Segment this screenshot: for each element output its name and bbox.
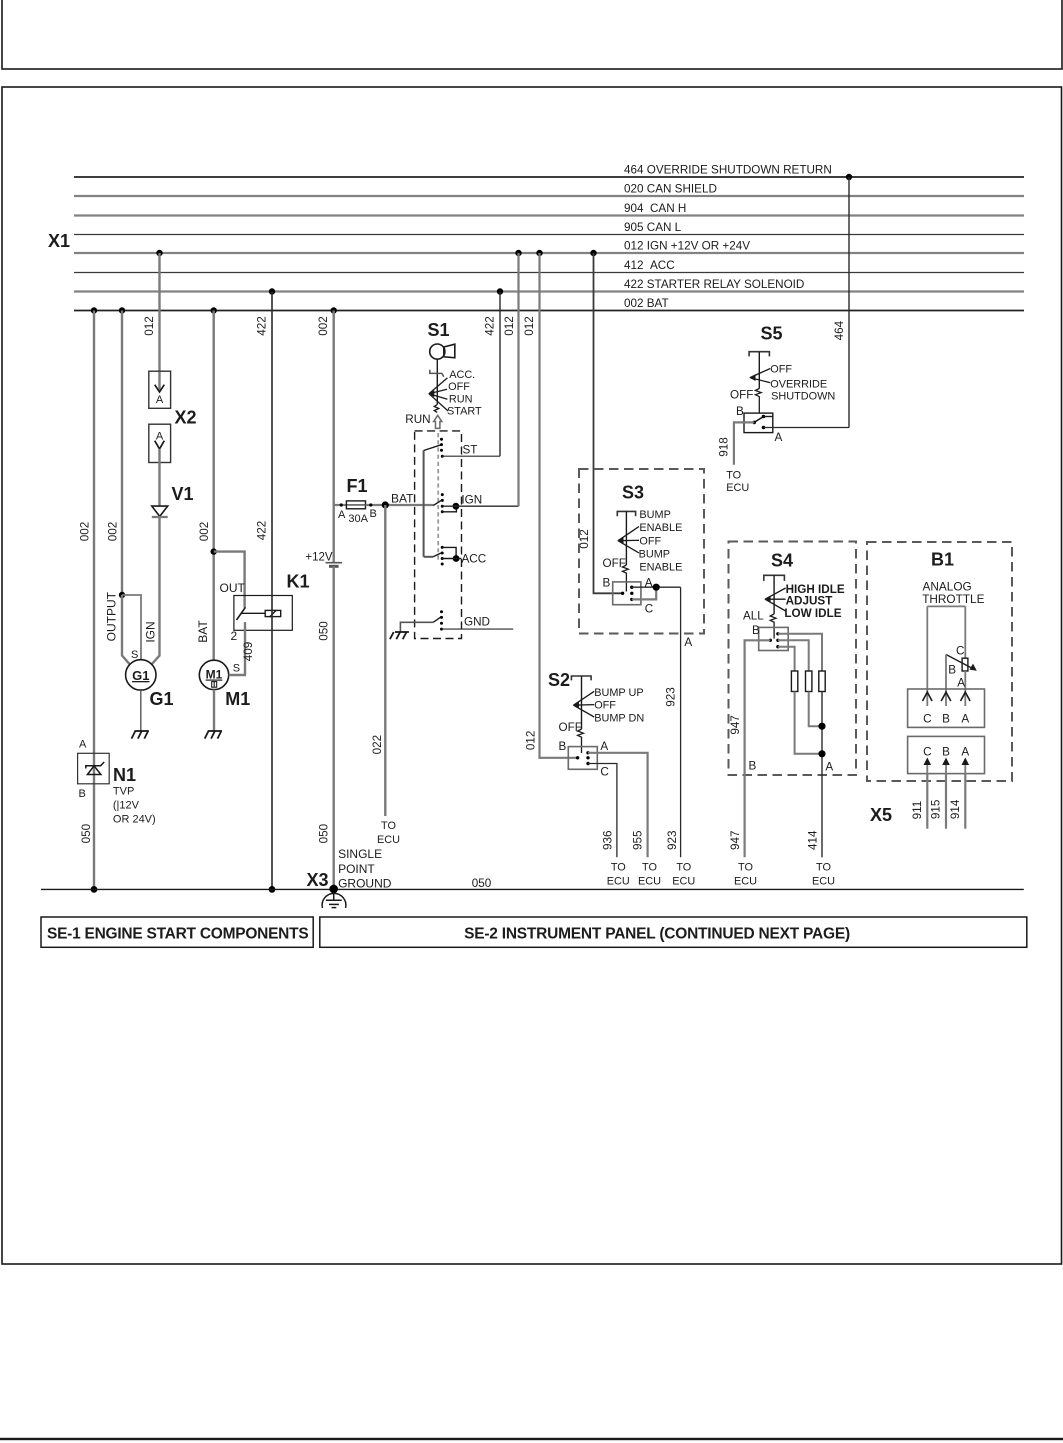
- wire B1 wiper leg: [945, 655, 947, 707]
- wire B1 pot top leg: [964, 606, 966, 658]
- svg-text:S: S: [233, 663, 240, 675]
- S4 fan pivot wedge: [764, 596, 770, 603]
- svg-text:THROTTLE: THROTTLE: [922, 592, 984, 606]
- S1 ACC position mark: [430, 370, 444, 377]
- svg-text:30A: 30A: [348, 513, 368, 525]
- svg-text:S5: S5: [761, 324, 783, 344]
- relay K1 coil box: [265, 610, 281, 616]
- fuse F1 pin A dot: [340, 503, 343, 506]
- X3 single point ground dot: [329, 885, 338, 894]
- wire S5-A to 464 riser: [764, 427, 850, 429]
- svg-text:S2: S2: [548, 670, 570, 690]
- svg-text:012: 012: [525, 731, 538, 751]
- junction dot IGN output: [453, 503, 460, 510]
- svg-text:002: 002: [107, 522, 120, 542]
- resistor R (right): [819, 671, 825, 692]
- svg-text:B: B: [603, 576, 611, 589]
- wire 002 to battery and X3 (x=333.7): [333, 311, 335, 563]
- potentiometer wiper arrow: [946, 655, 975, 670]
- svg-text:ECU: ECU: [377, 834, 400, 846]
- wire bus 002 BAT: [74, 310, 1024, 312]
- wire 012 riser from IGN to bus: [517, 253, 519, 506]
- S1 fan pivot wedge: [428, 390, 434, 397]
- wire S4 bottom contact to resistor 1: [778, 647, 795, 671]
- svg-text:022: 022: [371, 735, 384, 755]
- svg-text:C: C: [923, 745, 931, 758]
- svg-text:B: B: [79, 788, 86, 800]
- svg-text:002: 002: [317, 316, 330, 336]
- resistor R (left): [791, 671, 797, 692]
- bus net name labels: [624, 164, 832, 311]
- S1 mechanical link dashed: [437, 433, 439, 562]
- wire bus 412 ACC: [74, 272, 1024, 274]
- svg-text:A: A: [775, 431, 783, 444]
- connector X2 pin box A (male): [149, 371, 171, 408]
- female pin chevron C: [923, 692, 933, 701]
- svg-text:G1: G1: [150, 689, 174, 709]
- svg-text:ECU: ECU: [812, 876, 835, 888]
- connector X2 socket box (female): [149, 424, 171, 462]
- svg-text:TO: TO: [642, 862, 657, 874]
- svg-text:ECU: ECU: [672, 876, 695, 888]
- wire bus 012 IGN: [74, 252, 1024, 254]
- S2 spring squiggle: [578, 729, 584, 753]
- svg-text:A: A: [961, 712, 969, 725]
- wire 911: [926, 774, 928, 829]
- junction dot 414 lower: [818, 750, 825, 757]
- svg-text:904 CAN H: 904 CAN H: [624, 202, 686, 215]
- S2 stem: [581, 676, 583, 729]
- S1 GND contact arm: [433, 617, 441, 623]
- TVS N1 zener bar: [86, 762, 104, 769]
- svg-text:002 BAT: 002 BAT: [624, 297, 669, 310]
- svg-text:ECU: ECU: [726, 482, 749, 494]
- S4 handle bracket: [764, 575, 785, 581]
- wire 002 BAT drop to M1 (x=213.7): [212, 311, 214, 661]
- wire 012 drop to S3 (x=593.5): [594, 253, 623, 593]
- svg-text:SE-1 ENGINE START COMPONENTS: SE-1 ENGINE START COMPONENTS: [47, 926, 308, 943]
- X2 male pin arrowhead: [155, 385, 165, 392]
- caption box SE-2: [320, 917, 1027, 947]
- svg-text:002: 002: [198, 522, 211, 542]
- junction on 002 bus at x=122: [119, 307, 125, 313]
- S5 stem: [758, 352, 760, 389]
- svg-text:+12V: +12V: [305, 552, 333, 564]
- svg-text:OUT: OUT: [220, 581, 246, 595]
- svg-text:B: B: [752, 624, 760, 637]
- svg-text:LOW IDLE: LOW IDLE: [784, 607, 841, 620]
- svg-text:IGN: IGN: [461, 494, 482, 507]
- male pin arrow A: [964, 759, 966, 774]
- wire IGN output to 012 riser: [442, 505, 518, 507]
- wire 422 riser from ST to bus: [499, 292, 501, 457]
- svg-text:2: 2: [231, 629, 238, 643]
- wire bus 464 OVERRIDE SHUTDOWN RETURN: [74, 176, 1024, 178]
- svg-text:C: C: [956, 644, 964, 657]
- svg-text:G1: G1: [132, 668, 149, 683]
- svg-text:OR 24V): OR 24V): [113, 814, 156, 826]
- S1 ACC link hook: [442, 547, 456, 558]
- wire OUT from 002 to relay K1: [214, 552, 245, 608]
- wire OUTPUT lead into G1: [122, 595, 130, 665]
- svg-text:ACC.: ACC.: [449, 369, 475, 381]
- S1 GND feed wire and chassis ground: [400, 622, 415, 632]
- wire 422 from bus through K1 coil to ground bus (x=272): [271, 292, 273, 890]
- svg-text:S1: S1: [428, 320, 450, 340]
- svg-text:BAT: BAT: [196, 620, 210, 643]
- svg-text:TVP: TVP: [113, 786, 134, 798]
- wire 002 drop to G1 OUTPUT (x=122): [121, 311, 123, 596]
- S3 handle bracket: [617, 511, 635, 516]
- svg-text:B: B: [559, 740, 567, 753]
- svg-text:OFF: OFF: [559, 721, 582, 734]
- svg-text:BUMP UP: BUMP UP: [594, 687, 643, 699]
- S3 connector box: [613, 582, 641, 605]
- svg-text:TO: TO: [738, 862, 753, 874]
- S1 spring squiggle: [434, 405, 439, 413]
- S5 contact arm: [754, 417, 763, 423]
- svg-text:012: 012: [523, 316, 536, 336]
- svg-text:M1: M1: [206, 668, 223, 682]
- junction on 012 bus at x=539.5: [536, 250, 542, 256]
- S1 key stem: [436, 359, 438, 404]
- S3 contact dots: [630, 586, 633, 602]
- junction dot OUT branch: [211, 548, 217, 554]
- svg-text:BUMP: BUMP: [639, 509, 670, 521]
- S2 handle bracket: [571, 676, 591, 680]
- wire M1 to ground: [213, 690, 215, 731]
- wire IGN from V1 to G1: [152, 517, 160, 665]
- svg-text:464: 464: [833, 320, 846, 340]
- wire GND output stub: [442, 628, 514, 630]
- diode V1 triangle: [152, 506, 168, 516]
- svg-text:002: 002: [79, 522, 92, 542]
- svg-text:GND: GND: [464, 615, 490, 628]
- junction on 002 bus at x=94: [91, 307, 97, 313]
- svg-text:915: 915: [930, 799, 943, 819]
- female pin chevron B: [941, 692, 951, 701]
- wire 918 S5-B to ECU: [734, 422, 754, 464]
- svg-text:IGN: IGN: [144, 621, 158, 642]
- S1 IGN contact arm: [433, 500, 441, 505]
- junction on 422 bus at x=500: [497, 288, 503, 294]
- S2 contact dots: [586, 751, 589, 765]
- S1 ST contact dots: [440, 438, 444, 458]
- svg-text:X1: X1: [48, 231, 70, 251]
- wire left resistor to junction: [795, 692, 822, 754]
- junction dot S3 A/C: [653, 584, 660, 591]
- svg-text:422: 422: [484, 316, 497, 336]
- junction dot at (122,595): [119, 592, 125, 598]
- svg-text:OFF: OFF: [603, 557, 626, 570]
- svg-text:A: A: [600, 740, 608, 753]
- fuse F1 left lead: [334, 504, 347, 506]
- wire 002/050 left drop through N1 (x=94): [93, 311, 95, 890]
- S3 wiper dot: [621, 592, 624, 595]
- wire 409 relay pin2 to M1 S: [244, 622, 246, 675]
- svg-text:414: 414: [807, 830, 820, 850]
- svg-text:GROUND: GROUND: [338, 876, 392, 890]
- svg-text:A: A: [684, 636, 692, 649]
- svg-text:B: B: [942, 745, 950, 758]
- svg-text:ECU: ECU: [734, 876, 757, 888]
- wire S3-A output: [632, 586, 681, 588]
- S4 selector fan: [765, 588, 786, 611]
- svg-text:TO: TO: [611, 862, 626, 874]
- ground (M1 chassis): [205, 731, 222, 739]
- svg-text:A: A: [156, 394, 164, 406]
- S1 key head circle: [430, 344, 445, 359]
- S5 contact dots: [752, 415, 765, 430]
- wire 915: [945, 774, 947, 829]
- S3 dashed enclosure: [579, 469, 704, 634]
- svg-text:ADJUST: ADJUST: [786, 594, 834, 607]
- svg-text:K1: K1: [287, 572, 310, 592]
- svg-text:923: 923: [666, 830, 679, 850]
- junction on 422 bus at x=272: [269, 288, 275, 294]
- svg-text:422 STARTER RELAY SOLENOID: 422 STARTER RELAY SOLENOID: [624, 278, 804, 291]
- S1 feed bar vertical: [423, 451, 425, 557]
- battery long plate: [326, 562, 343, 564]
- svg-text:409: 409: [242, 642, 255, 662]
- junction dot ground bus x=94: [91, 886, 98, 893]
- potentiometer element: [962, 658, 968, 671]
- S5 fan pivot wedge: [749, 374, 755, 381]
- fuse F1 right lead: [366, 504, 434, 506]
- svg-text:B: B: [749, 760, 757, 773]
- diode V1 cathode bar: [152, 516, 168, 518]
- bottom page edge bar: [0, 1438, 1063, 1440]
- wire middle resistor to junction: [809, 692, 822, 727]
- S1 IGN start-link hook: [442, 506, 456, 512]
- svg-text:914: 914: [949, 799, 962, 819]
- wire M1 S lead: [229, 674, 246, 676]
- svg-text:012: 012: [143, 316, 156, 336]
- S4 contact dots: [776, 632, 779, 648]
- svg-text:012: 012: [503, 316, 516, 336]
- male pin arrow C: [926, 759, 928, 774]
- S3 selector fan: [618, 527, 639, 554]
- wire S4 top contact to resistor 3: [778, 634, 822, 671]
- S4 dashed enclosure: [729, 542, 857, 776]
- svg-text:RUN: RUN: [449, 393, 473, 405]
- S3 stem: [625, 511, 627, 565]
- svg-text:OFF: OFF: [594, 699, 616, 711]
- svg-text:ENABLE: ENABLE: [639, 561, 682, 573]
- S4 stem: [773, 575, 775, 614]
- relay K1 coil diagonal: [270, 610, 277, 617]
- wire 050 battery to X3: [333, 566, 335, 889]
- svg-text:TO: TO: [816, 862, 831, 874]
- svg-text:BUMP DN: BUMP DN: [594, 713, 644, 725]
- svg-text:947: 947: [729, 830, 742, 850]
- junction on 012 bus at x=593.5: [590, 250, 596, 256]
- S1 key bow: [444, 344, 455, 358]
- ground bus 050 line: [41, 888, 1024, 890]
- wire 012 drop to S2 (x=539.5): [540, 253, 578, 758]
- junction dot ACC output: [453, 555, 460, 562]
- S4 spring squiggle: [770, 614, 776, 639]
- motor M1 inner square: [212, 682, 217, 688]
- svg-text:C: C: [645, 602, 653, 615]
- svg-text:422: 422: [256, 521, 269, 541]
- junction dot 414 upper: [818, 723, 825, 730]
- junction on 464 bus at x=849: [846, 174, 852, 180]
- S1 ACC contact arm: [433, 553, 442, 557]
- wire 936 from S2-C to ECU: [588, 764, 617, 858]
- caption box SE-1: [41, 917, 313, 947]
- svg-text:A: A: [79, 739, 87, 751]
- S3 spring squiggle: [623, 565, 629, 592]
- S1 IGN contact dots: [441, 493, 444, 513]
- svg-text:F1: F1: [347, 476, 368, 496]
- svg-text:M1: M1: [225, 689, 250, 709]
- svg-text:ECU: ECU: [607, 876, 630, 888]
- S2 selector fan: [574, 691, 595, 717]
- junction dot F1-B / 022: [382, 501, 389, 508]
- svg-text:C: C: [923, 712, 931, 725]
- svg-text:V1: V1: [172, 484, 194, 504]
- svg-text:464 OVERRIDE SHUTDOWN RETURN: 464 OVERRIDE SHUTDOWN RETURN: [624, 164, 832, 177]
- svg-text:918: 918: [718, 437, 731, 457]
- wire bus 422 STARTER RELAY SOLENOID: [74, 290, 1024, 292]
- TVS N1 box: [78, 753, 110, 784]
- battery short plate: [329, 565, 339, 568]
- svg-text:A: A: [825, 761, 833, 774]
- S3 fan pivot wedge: [617, 537, 623, 544]
- S1 dashed enclosure: [415, 431, 462, 639]
- svg-text:X5: X5: [870, 805, 892, 825]
- B1 connector box (device side): [908, 689, 985, 727]
- junction on 012 bus at x=517.5: [515, 250, 521, 256]
- male pin arrow B: [945, 759, 947, 774]
- svg-text:050: 050: [80, 823, 93, 843]
- wire S4 mid contact to resistor 2: [778, 640, 809, 671]
- svg-text:OFF: OFF: [730, 389, 753, 402]
- S1 ST contact arm: [424, 445, 441, 451]
- svg-text:SINGLE: SINGLE: [338, 847, 382, 861]
- svg-text:020 CAN SHIELD: 020 CAN SHIELD: [624, 183, 717, 196]
- svg-text:TO: TO: [381, 820, 396, 832]
- S1 hollow arrow: [434, 415, 442, 428]
- svg-text:OFF: OFF: [639, 535, 661, 547]
- svg-text:B: B: [948, 664, 956, 677]
- svg-text:911: 911: [911, 801, 924, 820]
- junction on 012 bus at x=159.5: [156, 250, 162, 256]
- svg-text:B: B: [736, 405, 744, 418]
- S1 ACC contact feed tick: [424, 556, 434, 558]
- svg-text:A: A: [338, 509, 346, 521]
- wire bus 020 CAN SHIELD: [74, 195, 1024, 197]
- svg-text:012 IGN +12V OR +24V: 012 IGN +12V OR +24V: [624, 240, 750, 253]
- svg-text:A: A: [156, 431, 164, 443]
- wire 464 riser: [848, 177, 850, 428]
- svg-text:ACC: ACC: [462, 553, 487, 566]
- relay K1 arm-to-coil link: [242, 612, 266, 614]
- svg-text:OVERRIDE: OVERRIDE: [770, 379, 827, 391]
- svg-text:X3: X3: [307, 870, 329, 890]
- S5 connector box: [744, 413, 773, 433]
- svg-text:955: 955: [632, 830, 645, 850]
- wire 955 from S2-A to ECU: [588, 753, 648, 858]
- earth ground symbol at X3: [322, 893, 346, 908]
- svg-text:BUMP: BUMP: [639, 548, 670, 560]
- svg-text:RUN: RUN: [405, 413, 430, 426]
- svg-text:412 ACC: 412 ACC: [624, 259, 675, 272]
- fuse F1 pin B dot: [369, 503, 372, 506]
- svg-text:050: 050: [317, 621, 330, 641]
- S1 ACC contact dots: [441, 546, 444, 566]
- svg-text:A: A: [957, 676, 965, 689]
- ground (G1 chassis): [132, 731, 149, 739]
- wire B1 C leg: [926, 606, 928, 706]
- wire ST output to 422 riser: [442, 455, 500, 457]
- motor M1 circle: [199, 660, 228, 689]
- svg-text:923: 923: [665, 687, 678, 707]
- B1 dashed enclosure: [867, 542, 1012, 781]
- svg-text:936: 936: [602, 830, 615, 850]
- svg-text:947: 947: [729, 715, 742, 735]
- wire 947 S4-B to ECU: [745, 640, 771, 857]
- junction on 002 bus at x=213.7: [211, 307, 217, 313]
- svg-text:A: A: [961, 745, 969, 758]
- svg-text:B1: B1: [931, 550, 954, 570]
- fuse F1 body centerline: [346, 504, 365, 506]
- svg-text:B: B: [370, 508, 377, 520]
- svg-text:B: B: [942, 712, 950, 725]
- wire 914: [964, 774, 966, 829]
- svg-text:SHUTDOWN: SHUTDOWN: [771, 391, 835, 403]
- relay K1 box: [234, 596, 292, 631]
- B1 top link bar: [927, 605, 965, 607]
- svg-text:422: 422: [256, 316, 269, 336]
- svg-text:(|12V: (|12V: [113, 800, 140, 812]
- S5 NC stub: [764, 416, 773, 418]
- relay K1 contact arm: [237, 607, 246, 620]
- X5 connector box (harness side): [908, 736, 985, 773]
- svg-text:BAT: BAT: [391, 492, 414, 506]
- S4 connector box: [759, 627, 789, 650]
- S1 GND contact dots: [440, 610, 443, 630]
- svg-text:SE-2 INSTRUMENT PANEL (CONTINU: SE-2 INSTRUMENT PANEL (CONTINUED NEXT PA…: [464, 926, 850, 943]
- svg-text:ECU: ECU: [638, 876, 661, 888]
- svg-text:S: S: [131, 649, 138, 661]
- female pin chevron A: [961, 692, 971, 701]
- wire bus 904 CAN H: [74, 214, 1024, 216]
- wire S3-C loop to A: [632, 587, 656, 599]
- X2 female socket chevron: [155, 441, 165, 449]
- svg-text:OFF: OFF: [770, 364, 792, 376]
- svg-text:POINT: POINT: [338, 862, 375, 876]
- wire from X2 to V1: [158, 449, 160, 506]
- svg-text:905 CAN L: 905 CAN L: [624, 221, 682, 234]
- svg-text:ALL: ALL: [743, 610, 764, 623]
- svg-text:N1: N1: [113, 765, 136, 785]
- wire 012 drop through X2, V1 to G1 IGN (x=159.5): [158, 253, 160, 390]
- svg-text:C: C: [600, 766, 608, 779]
- S2 connector box: [568, 747, 597, 770]
- svg-text:TO: TO: [726, 469, 741, 481]
- S5 selector fan: [750, 369, 770, 383]
- svg-text:050: 050: [472, 877, 492, 890]
- S2 wiper dot: [576, 756, 579, 759]
- junction on 002 bus at x=333.7: [331, 307, 337, 313]
- wire B1 pot bottom leg: [964, 671, 966, 706]
- svg-text:OFF: OFF: [448, 381, 470, 393]
- S2 fan pivot wedge: [573, 702, 579, 709]
- svg-text:ENABLE: ENABLE: [639, 522, 682, 534]
- svg-text:OUTPUT: OUTPUT: [105, 591, 119, 641]
